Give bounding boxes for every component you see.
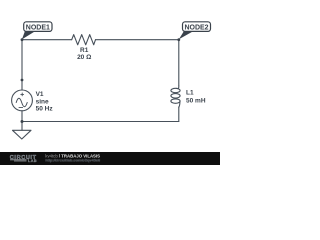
junction dot bottom node [21,120,24,123]
V1 plus sign [21,93,24,96]
inductor L1 top hook [176,86,179,89]
wire left rail lower [21,111,23,131]
inductor L1 coil loop 3 [171,99,180,103]
resistor R1 zigzag [72,35,96,45]
ground symbol [13,130,32,139]
svg-text:V1: V1 [36,91,44,98]
junction dot V1 top terminal [21,79,24,82]
node flag NODE2 pointer [179,31,193,39]
svg-text:htlp:∕∕circuitlab.com∕c∕2qv45e: htlp:∕∕circuitlab.com∕c∕2qv45e6 [45,157,101,162]
inductor L1 coil loop 1 [171,88,180,92]
junction dot top-left corner [21,38,24,41]
junction dot top-right corner [177,38,180,41]
wire right rail lower [178,107,180,122]
wire bottom horizontal [22,121,179,123]
svg-text:NODE1: NODE1 [26,24,50,31]
voltage source V1 body [12,90,33,111]
svg-text:NODE2: NODE2 [184,24,208,31]
inductor L1 coil loop 2 [171,94,180,98]
node flag NODE2 box [183,22,211,32]
svg-text:20 Ω: 20 Ω [77,54,91,61]
node flag NODE1 pointer [22,31,35,39]
svg-text:R1: R1 [80,47,89,54]
wire top-left segment [22,39,72,41]
watermark CircuitLab logo sub line [10,160,27,161]
svg-text:sine: sine [36,98,49,105]
V1 sine waveform [16,98,27,107]
svg-text:LAB: LAB [28,159,37,163]
watermark bar background [0,152,220,165]
svg-text:L1: L1 [186,89,194,96]
wire top-right segment [96,39,179,41]
wire left rail upper [21,40,23,90]
svg-text:50 Hz: 50 Hz [36,106,54,113]
V1 minus sign [19,107,23,109]
inductor L1 bottom hook [179,102,180,108]
wire right rail upper [178,40,180,86]
svg-text:50 mH: 50 mH [186,97,206,104]
node flag NODE1 box [24,22,52,32]
